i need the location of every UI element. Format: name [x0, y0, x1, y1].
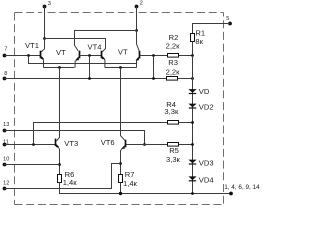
svg-text:VT: VT	[118, 47, 128, 56]
diode VD3	[188, 159, 213, 168]
wire pin2 to VT pair1-right collector	[75, 31, 137, 51]
diode VD	[188, 87, 209, 96]
wire pin8 common base line to R3	[5, 78, 193, 80]
wire pin11 branch to R4	[34, 123, 193, 145]
svg-text:VD3: VD3	[199, 159, 214, 168]
node pin3 junction	[43, 37, 46, 40]
svg-text:3: 3	[48, 1, 51, 7]
wire R6 bottom to ground rail	[60, 183, 232, 194]
svg-text:13: 13	[3, 122, 9, 128]
wire pin2 stem	[136, 7, 138, 31]
wire pin7 to VT1 base	[5, 55, 41, 57]
wire pin10	[5, 164, 60, 166]
svg-text:8: 8	[4, 71, 7, 77]
wire pair2 emitter rail lower	[105, 67, 137, 69]
pin 2 terminal	[135, 1, 143, 9]
svg-text:VD4: VD4	[199, 176, 214, 185]
dashed IC boundary top	[15, 12, 224, 14]
svg-text:3,3к: 3,3к	[164, 107, 179, 116]
wire pin3 to VT4 collector	[45, 39, 106, 52]
svg-text:VT: VT	[56, 48, 66, 57]
pin 11 terminal	[3, 139, 9, 146]
svg-text:R3: R3	[168, 58, 178, 67]
wire pin12 to VT6 emitter	[5, 164, 121, 189]
pin 7 terminal	[3, 47, 8, 58]
node pin12 junction	[119, 162, 122, 165]
wire VT4 emitter drop	[104, 60, 106, 67]
wire VT6 base to R5	[126, 144, 192, 146]
svg-text:10: 10	[3, 157, 9, 163]
resistor R4	[164, 100, 179, 124]
wire pair2-right base to R2	[140, 55, 193, 57]
node pair2 emitters	[119, 66, 122, 69]
node pin8 R2 drop	[152, 77, 155, 80]
pin 13 terminal	[3, 122, 10, 132]
svg-text:1, 4, 6, 9, 14: 1, 4, 6, 9, 14	[224, 184, 260, 191]
transistor VT4	[88, 43, 106, 61]
wire base link pair1right to VT4	[80, 55, 101, 57]
wire pair2-right emitter drop	[136, 61, 138, 68]
resistor R3	[166, 58, 181, 80]
diode VD2	[188, 103, 213, 112]
node middle bases	[88, 54, 91, 57]
svg-text:5: 5	[226, 16, 229, 22]
svg-text:8к: 8к	[195, 37, 203, 46]
transistor VT pair2 right	[118, 47, 140, 60]
wire VT6 collector riser	[121, 68, 125, 141]
node pin8 middle bases	[88, 77, 91, 80]
svg-text:R5: R5	[169, 146, 179, 155]
node pin10 junction	[58, 163, 61, 166]
svg-text:2,2к: 2,2к	[166, 67, 181, 76]
node R4 rail	[191, 121, 194, 124]
node R5 rail	[191, 143, 194, 146]
pin 10 terminal	[3, 157, 10, 167]
wire pin7 branch down and emitter rail upper	[29, 56, 137, 68]
wire VT3 collector riser	[57, 68, 60, 141]
transistor VT pair1 right	[56, 48, 80, 61]
diode VD4	[188, 176, 213, 185]
wire R7 bottom to ground rail	[120, 183, 122, 194]
dashed IC boundary bottom	[15, 204, 224, 206]
node VD4 ground	[191, 192, 194, 195]
pin 5 terminal	[226, 16, 232, 25]
svg-text:1,4к: 1,4к	[63, 178, 78, 187]
svg-text:VT6: VT6	[101, 138, 115, 147]
node R7 ground	[119, 192, 122, 195]
svg-text:R7: R7	[125, 170, 135, 179]
wire drop base junction to pin8 line	[153, 56, 155, 79]
pin 12 terminal	[3, 180, 10, 190]
svg-text:VT1: VT1	[25, 41, 39, 50]
wire VT1 collector riser	[41, 39, 44, 52]
svg-text:VT4: VT4	[88, 43, 102, 52]
node pin2 junction	[135, 29, 138, 32]
wire VT3 emitter drop	[59, 149, 61, 175]
svg-text:7: 7	[4, 47, 7, 53]
node R3 rail	[191, 77, 194, 80]
wire pin13 to VT6 base junction	[5, 131, 145, 145]
pin 3 terminal	[43, 1, 51, 9]
resistor R7	[119, 170, 138, 188]
node pin11 branch	[32, 143, 35, 146]
wire pair1-right emitter drop	[74, 61, 76, 68]
wire middle bases drop to pin8 line	[89, 56, 91, 79]
wire bias rail	[192, 56, 194, 194]
node base R2 junction	[152, 54, 155, 57]
resistor R1	[191, 29, 206, 47]
transistor VT1	[25, 41, 44, 60]
wire R1 bottom to rail	[192, 42, 194, 56]
node pair1 emitters	[58, 66, 61, 69]
transistor VT6	[101, 138, 126, 149]
wire pair1 emitter rail lower	[44, 67, 75, 69]
resistor R5	[166, 143, 181, 165]
svg-text:2,2к: 2,2к	[166, 42, 181, 51]
pin 8 terminal	[3, 71, 8, 81]
resistor R6	[58, 170, 78, 187]
wire pin5 to R1	[193, 24, 231, 34]
node R2 rail	[191, 54, 194, 57]
svg-text:2: 2	[140, 1, 143, 7]
node VT6 base junction	[143, 143, 146, 146]
svg-text:VD: VD	[199, 87, 210, 96]
transistor VT3	[56, 139, 79, 149]
svg-text:VT3: VT3	[64, 139, 78, 148]
svg-text:12: 12	[3, 180, 9, 186]
wire pin11 to VT3 base	[5, 144, 56, 146]
wire VT6 emitter drop	[121, 149, 122, 174]
node pin7 branch	[27, 54, 30, 57]
svg-text:1,4к: 1,4к	[123, 179, 138, 188]
resistor R2	[166, 33, 181, 57]
ground pins terminal 1,4,6,9,14	[224, 184, 260, 196]
svg-text:VD2: VD2	[199, 103, 214, 112]
dashed IC boundary left	[14, 13, 16, 205]
wire VT pair2-right collector riser	[137, 31, 140, 52]
wire pin3 stem	[44, 7, 46, 39]
svg-text:3,3к: 3,3к	[166, 155, 181, 164]
wire VT1 emitter drop	[43, 60, 45, 67]
dashed IC boundary right	[223, 13, 225, 205]
